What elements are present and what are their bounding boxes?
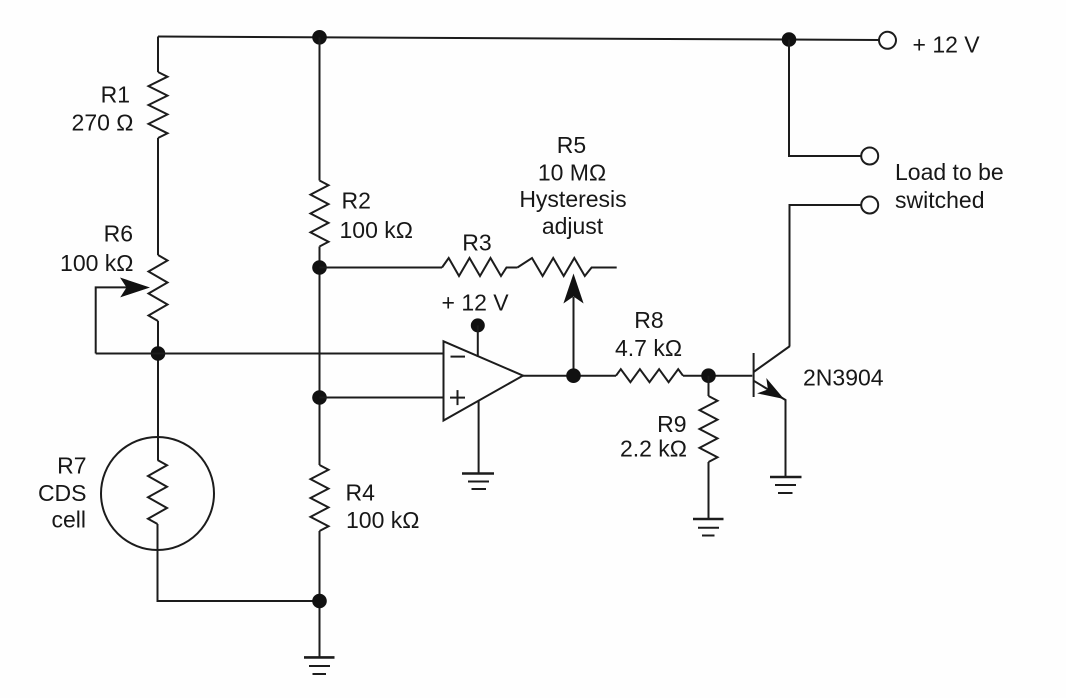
wire top +12V rail (158, 37, 879, 41)
svg-text:CDS: CDS (38, 480, 87, 506)
terminal load lower circle (861, 197, 878, 214)
wire R7 bottom lead (158, 524, 320, 601)
svg-text:2.2 kΩ: 2.2 kΩ (620, 436, 687, 462)
svg-text:R9: R9 (657, 411, 686, 437)
transistor Q1 emitter lead (754, 381, 786, 477)
svg-text:R8: R8 (634, 307, 663, 333)
terminal +12V circle (879, 32, 896, 49)
terminal load upper circle (861, 148, 878, 165)
op-amp U1 triangle (444, 341, 524, 420)
wire noninverting input (320, 397, 444, 399)
wire left column upper (rail to R1) (157, 37, 159, 73)
resistor R8 (616, 369, 683, 382)
node R3 feed junction (312, 260, 327, 275)
svg-text:R3: R3 (462, 229, 491, 255)
svg-text:100 kΩ: 100 kΩ (60, 250, 133, 276)
wire R1 bottom to R6 top (157, 138, 159, 255)
wire R3 feed (320, 267, 443, 269)
resistor R2 (311, 181, 329, 247)
wire R8 to base (683, 375, 752, 377)
wire inverting input (96, 353, 444, 355)
wire R4 bottom to ground (319, 531, 321, 657)
ground (R9) (693, 519, 724, 536)
op-amp minus pin label (451, 356, 466, 358)
R6 wiper arrowhead (120, 278, 150, 298)
resistor R5 potentiometer body (517, 258, 616, 276)
svg-text:+ 12 V: + 12 V (442, 289, 510, 315)
svg-text:100 kΩ: 100 kΩ (340, 217, 413, 243)
wire R2 bottom to R4 top (319, 247, 321, 466)
svg-text:R4: R4 (346, 480, 376, 506)
node output junction (566, 368, 581, 383)
resistor R6 potentiometer body (149, 255, 168, 321)
resistor R4 (311, 465, 329, 531)
svg-text:4.7 kΩ: 4.7 kΩ (615, 335, 682, 361)
transistor Q1 emitter arrowhead (757, 378, 784, 399)
svg-text:R6: R6 (104, 220, 133, 246)
op-amp plus pin label (450, 390, 465, 405)
wire op-amp ground lead (478, 401, 480, 474)
wire R9 top lead (708, 376, 710, 396)
ground (bottom middle) (304, 657, 335, 674)
node inverting-input junction (151, 346, 166, 361)
svg-text:adjust: adjust (542, 213, 604, 239)
svg-text:Load to be: Load to be (895, 159, 1004, 185)
svg-text:100 kΩ: 100 kΩ (346, 507, 419, 533)
svg-text:R1: R1 (101, 82, 130, 108)
R5 wiper shaft wire (573, 297, 575, 376)
wire R9 bottom to ground (708, 462, 710, 519)
svg-text:+ 12 V: + 12 V (913, 32, 981, 58)
wire R6 bottom through node to R7 (157, 321, 159, 460)
resistor R3 (442, 258, 517, 276)
svg-text:R5: R5 (557, 132, 586, 158)
wire op-amp output (523, 375, 616, 377)
node junction top rail to R2 column (312, 30, 327, 45)
wire middle column rail to R2 (319, 37, 321, 180)
wire load branch upper (789, 40, 861, 157)
op-amp supply dot node (471, 318, 485, 332)
svg-text:switched: switched (895, 187, 984, 213)
svg-text:R2: R2 (342, 188, 371, 214)
resistor R7 zigzag (148, 460, 167, 524)
node bottom junction (312, 594, 327, 609)
node noninverting-input junction (312, 390, 327, 405)
svg-text:cell: cell (51, 507, 86, 533)
transistor Q1 base bar (753, 353, 755, 397)
ground (op-amp) (462, 474, 494, 490)
svg-text:Hysteresis: Hysteresis (519, 186, 626, 212)
node junction top rail to load branch (782, 32, 797, 47)
svg-text:R7: R7 (57, 453, 86, 479)
resistor R9 (700, 396, 718, 462)
transistor Q1 collector lead (754, 346, 790, 372)
wire R6 wiper arm (96, 287, 128, 353)
svg-text:270 Ω: 270 Ω (72, 109, 134, 135)
photocell R7 circle (101, 437, 214, 550)
resistor R1 (149, 72, 168, 138)
wire load lower to collector (790, 205, 862, 346)
node base junction (701, 368, 716, 383)
wire supply to op-amp (477, 325, 479, 357)
svg-text:2N3904: 2N3904 (803, 365, 884, 391)
R5 wiper arrowhead (563, 274, 583, 304)
ground (emitter) (770, 477, 802, 493)
svg-text:10 MΩ: 10 MΩ (538, 160, 606, 186)
